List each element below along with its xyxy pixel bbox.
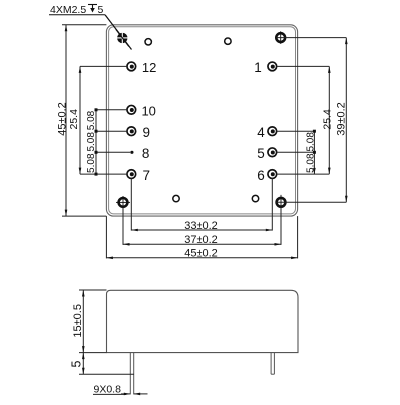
leader pin5 [277, 151, 315, 153]
pin 1 [254, 60, 276, 75]
svg-text:6: 6 [257, 168, 265, 183]
side view right pin [271, 353, 274, 375]
leader pin9 [96, 130, 127, 132]
extension body left edge down [105, 216, 107, 258]
side view left pin [130, 353, 133, 395]
svg-text:4: 4 [257, 125, 265, 140]
mounting hole BL [116, 196, 130, 209]
svg-text:10: 10 [141, 103, 155, 118]
leader pin6 [277, 173, 330, 175]
leader hole TR to dim 39 [276, 37, 346, 39]
leader pin12 [80, 65, 127, 67]
dim 33±0.2 bottom [131, 220, 272, 232]
extension hole BR down [280, 207, 282, 245]
side view body [107, 290, 299, 352]
dim 25.4 left [68, 66, 82, 174]
pin 7 [127, 168, 150, 183]
svg-text:39±0.2: 39±0.2 [336, 102, 348, 136]
small hole bottom-left [173, 195, 179, 201]
body outline inner (top view) [109, 27, 296, 214]
mounting hole TR [276, 31, 285, 44]
svg-text:5.08: 5.08 [306, 153, 317, 173]
pin 5 [257, 146, 276, 161]
svg-text:5: 5 [98, 4, 104, 16]
extension body right edge down [297, 216, 299, 258]
label 4XM2.5 depth 5 [49, 4, 132, 50]
leader pin1 [277, 65, 330, 67]
svg-text:7: 7 [143, 168, 151, 183]
dim 15±0.5 side [72, 290, 107, 353]
svg-text:25.4: 25.4 [68, 109, 80, 130]
dim 37±0.2 bottom [123, 234, 281, 246]
dim 5 side [70, 353, 134, 375]
svg-text:5.08: 5.08 [86, 132, 97, 152]
small hole top-left [145, 39, 151, 45]
svg-text:37±0.2: 37±0.2 [184, 234, 218, 246]
mounting hole TL [115, 29, 130, 46]
leader pin7 [80, 173, 127, 175]
svg-text:5: 5 [257, 146, 265, 161]
small hole top-right [225, 38, 231, 44]
leader pin4 [277, 130, 315, 132]
svg-text:5.08: 5.08 [306, 132, 317, 152]
dim 45±0.2 left [56, 25, 106, 216]
pin 8 [130, 146, 149, 161]
leader hole BR to dim 39 [276, 201, 346, 203]
svg-text:25.4: 25.4 [321, 109, 333, 130]
label 9X0.8 pin dimension [93, 383, 148, 395]
mounting hole BR [277, 195, 286, 210]
dim 45±0.2 bottom [106, 248, 297, 260]
side view bottom edge extension left [79, 352, 107, 354]
svg-text:1: 1 [254, 60, 262, 75]
pin 10 [127, 103, 156, 118]
pin 4 [257, 125, 276, 140]
dim 25.4 right [321, 66, 333, 174]
extension pin7 down [130, 179, 132, 231]
dim 5.08 x2 right [306, 130, 317, 174]
svg-text:9: 9 [143, 125, 151, 140]
extension hole BL down [122, 207, 124, 245]
small hole bottom-right [252, 195, 258, 201]
leader pin10 [96, 109, 127, 111]
leader pin8 [96, 151, 130, 153]
pin 9 [127, 125, 150, 140]
leader to TL mounting hole [105, 15, 132, 50]
svg-text:8: 8 [142, 146, 150, 161]
svg-text:45±0.2: 45±0.2 [56, 102, 68, 136]
svg-text:5.08: 5.08 [86, 110, 97, 130]
body outline outer (top view) [106, 25, 297, 216]
svg-text:33±0.2: 33±0.2 [184, 220, 218, 232]
svg-text:12: 12 [142, 60, 156, 75]
extension pin6 down [271, 179, 273, 231]
svg-text:4XM2.5: 4XM2.5 [50, 4, 86, 16]
svg-text:9X0.8: 9X0.8 [94, 383, 122, 395]
svg-text:45±0.2: 45±0.2 [184, 248, 218, 260]
pin 6 [257, 168, 276, 183]
dim 39±0.2 right [336, 38, 348, 203]
svg-text:5: 5 [70, 360, 84, 367]
pin 12 [127, 60, 156, 75]
dim 5.08 x3 left [86, 108, 97, 175]
svg-text:5.08: 5.08 [86, 153, 97, 173]
svg-text:15±0.5: 15±0.5 [72, 304, 84, 338]
